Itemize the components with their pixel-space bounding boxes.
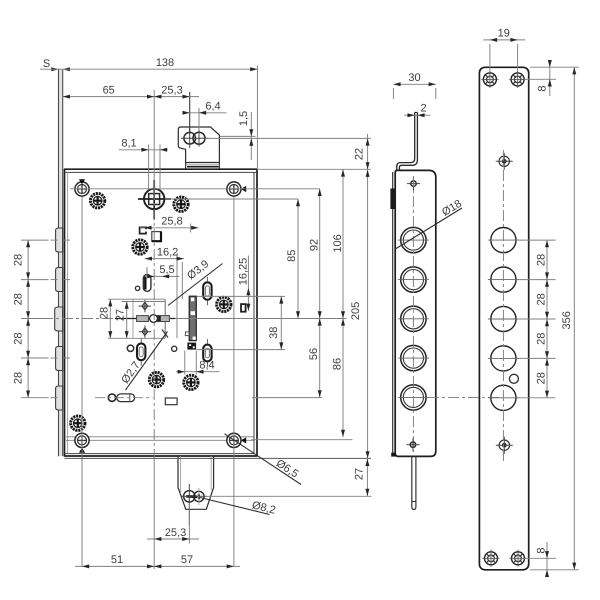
svg-text:205: 205 xyxy=(350,302,362,320)
spindle hub circle xyxy=(144,189,164,209)
lock case inner edge left xyxy=(67,172,69,453)
dimension 1,5 xyxy=(238,111,253,160)
mounting screw A top-left xyxy=(75,182,89,196)
dimension 5,5 xyxy=(147,264,179,278)
dimension 28 (gearbox) xyxy=(99,299,166,338)
leader diameter 2,7 xyxy=(119,330,168,391)
svg-text:28: 28 xyxy=(535,254,547,266)
extension of case top edge to dims 22/106 xyxy=(257,168,371,170)
side vertical centerline xyxy=(412,176,414,452)
bolt pin bump 2 xyxy=(56,268,63,292)
side screw hole marker bottom xyxy=(407,438,420,451)
axle mechanism bar left xyxy=(115,318,175,320)
side cylinder hole 5 xyxy=(398,385,429,410)
bolt pin bump 1 xyxy=(56,228,63,252)
faceplate fixing cross marker upper xyxy=(496,153,513,170)
bottom latch guide capsule xyxy=(117,394,135,402)
screw A top-right triangle marker xyxy=(241,186,246,192)
vertical centerline through hub and latch xyxy=(153,90,155,569)
svg-text:56: 56 xyxy=(308,348,320,360)
dimension 27 (bottom right) xyxy=(354,458,370,496)
svg-text:16,2: 16,2 xyxy=(157,246,178,258)
hatched screw B 4 xyxy=(217,297,231,311)
faceplate hole extension lines xyxy=(517,240,556,398)
hatched screw B 1 xyxy=(90,194,104,208)
slot capsule C3 xyxy=(203,339,211,367)
faceplate screw hole bottom right xyxy=(510,550,527,567)
keyhole dark slot bar xyxy=(186,495,197,498)
side faceplate edge line xyxy=(392,172,394,456)
bottom guide centerline xyxy=(95,397,153,399)
dimension 85 xyxy=(286,199,300,318)
extension at inner plate bottom for dim 86 xyxy=(252,439,353,441)
screw A top-left triangle marker xyxy=(79,179,85,184)
svg-text:S: S xyxy=(43,58,50,70)
axle mechanism bar right xyxy=(157,316,169,322)
svg-text:65: 65 xyxy=(103,84,115,96)
extension vertical from case right edge to 138 xyxy=(256,66,258,170)
dimension 138 xyxy=(40,57,257,71)
bolt pin bump 4 xyxy=(56,347,63,371)
lock case inner edge top xyxy=(65,171,258,173)
dimension 8,4 xyxy=(176,360,220,374)
extension tick for 5,5 xyxy=(146,267,148,277)
faceplate cylinder hole 2 xyxy=(488,267,519,292)
svg-text:8: 8 xyxy=(536,85,548,91)
latch bolt bar xyxy=(189,296,196,340)
small bracket part xyxy=(140,227,146,233)
dimension 8,1 xyxy=(119,138,168,152)
svg-text:8,1: 8,1 xyxy=(121,138,136,150)
dimension 38 xyxy=(268,296,284,349)
svg-text:28: 28 xyxy=(535,372,547,384)
svg-text:28: 28 xyxy=(99,307,111,319)
svg-text:106: 106 xyxy=(332,234,344,252)
extension lines of 1.5 offset xyxy=(220,135,256,137)
side screw hole marker top xyxy=(407,177,420,190)
svg-text:356: 356 xyxy=(561,311,573,329)
side body bottom-left plate end mark xyxy=(391,453,396,457)
svg-text:28: 28 xyxy=(535,293,547,305)
slot capsule C2 xyxy=(203,277,211,305)
horizontal latch axis centerline xyxy=(42,318,347,320)
svg-text:28: 28 xyxy=(535,333,547,345)
hatched screw B 2 xyxy=(174,197,188,211)
side cylinder hole 1 xyxy=(398,227,429,252)
hatched screw B 6 xyxy=(184,375,198,389)
hatched screw B 3 xyxy=(133,240,147,254)
keyhole crosshairs xyxy=(182,495,207,497)
extension verticals of 8.1 slot xyxy=(148,145,150,189)
faceplate outline xyxy=(479,67,528,570)
leader diameter 3,9 xyxy=(168,258,223,305)
svg-text:28: 28 xyxy=(12,254,24,266)
lock case outline xyxy=(65,169,258,456)
dimensions 51 and 57 xyxy=(75,554,240,568)
gearbox outline verticals xyxy=(132,299,134,338)
slot capsule C4 xyxy=(137,338,145,366)
svg-text:25,8: 25,8 xyxy=(161,216,182,228)
mounting screw A bottom-left xyxy=(75,433,89,447)
extension line from top screws (horizontal) xyxy=(70,188,320,190)
svg-text:138: 138 xyxy=(156,57,174,69)
keyhole horizontal centerline to dim 27 xyxy=(207,495,372,497)
svg-text:28: 28 xyxy=(12,372,24,384)
svg-text:51: 51 xyxy=(111,554,123,566)
hatched screw B 5 xyxy=(149,372,163,386)
connecting centerline to faceplate view xyxy=(428,396,502,398)
faceplate screw hole bottom left xyxy=(483,550,500,567)
side profile body xyxy=(395,170,436,456)
dimension 8 top xyxy=(524,60,579,96)
extension verticals below latch for 8,4 xyxy=(184,351,186,375)
faceplate fixing cross marker lower xyxy=(496,437,513,454)
faceplate cylinder hole 5 xyxy=(488,385,519,410)
side cylinder hole 3 xyxy=(398,306,429,331)
left pitch chain dimension line xyxy=(12,240,30,398)
extension of latch bolt bottom xyxy=(197,349,286,351)
extension vertical tab slot center up xyxy=(189,92,191,134)
dimension S (plate thickness) xyxy=(43,58,70,71)
extension tick for 25,8 xyxy=(190,224,192,233)
extension verticals for 16,2 and box xyxy=(176,253,178,338)
dimension 22 xyxy=(353,134,369,169)
faceplate edge-on (left view, thickness S) xyxy=(59,69,63,456)
dimension 56 xyxy=(308,318,322,397)
tab slot crosshairs xyxy=(181,137,209,139)
latch bolt lower block xyxy=(187,343,196,350)
svg-text:86: 86 xyxy=(331,358,343,370)
position cross marker lower xyxy=(139,326,151,338)
bottom plate keyhole right circle xyxy=(194,491,204,501)
svg-text:8,4: 8,4 xyxy=(199,360,214,372)
dimension 27 (gearbox) xyxy=(114,302,128,339)
extension vertical tab slot right hole up xyxy=(198,108,200,130)
slot capsule C1 (top left of center) xyxy=(143,269,151,292)
svg-text:25,3: 25,3 xyxy=(165,527,186,539)
svg-text:28: 28 xyxy=(12,332,24,344)
svg-text:27: 27 xyxy=(114,309,126,321)
svg-text:27: 27 xyxy=(354,468,366,480)
dimension 30 xyxy=(393,72,435,99)
dimension 16,2 xyxy=(145,246,184,260)
faceplate vertical centerline xyxy=(502,150,504,462)
mounting tab fold lines xyxy=(186,162,220,164)
svg-text:30: 30 xyxy=(408,72,420,84)
side cylinder hole 2 xyxy=(398,267,429,292)
small circle part 2 xyxy=(127,345,133,351)
internal plate bottom edge lines xyxy=(66,436,254,438)
mounting screw A top-right xyxy=(227,182,241,196)
bolt pin bump 5 xyxy=(56,386,63,410)
bottom latch guide circle xyxy=(108,394,115,401)
small square marker right xyxy=(241,304,246,312)
mounting screw A bottom-right xyxy=(227,433,241,447)
svg-text:25,3: 25,3 xyxy=(161,84,182,96)
side bolt pin (black) xyxy=(390,189,395,210)
dimension 6,4 xyxy=(183,101,227,115)
mounting tab (top) outline xyxy=(178,127,219,169)
svg-text:2: 2 xyxy=(420,103,426,115)
svg-text:28: 28 xyxy=(12,293,24,305)
dimension 19 xyxy=(483,28,525,72)
dimension 92 xyxy=(308,189,321,319)
bottom plate inner wall lines xyxy=(180,456,182,494)
extension line from hub center (horizontal, for dim 85) xyxy=(165,198,298,200)
svg-text:22: 22 xyxy=(353,148,365,160)
small circle part 3 xyxy=(172,346,177,351)
extension at lower hole level for dim 56 xyxy=(252,397,322,399)
bottom mounting plate outline xyxy=(178,456,214,509)
faceplate cylinder hole 1 xyxy=(488,228,519,253)
svg-text:16,25: 16,25 xyxy=(237,258,249,286)
lock case inner edge right xyxy=(253,172,255,453)
dimension 86 xyxy=(331,318,345,437)
dimension 25,3 bottom xyxy=(147,527,199,541)
faceplate small circle xyxy=(509,374,518,383)
faceplate cylinder hole 4 xyxy=(488,346,519,371)
dimension chain 28 x4 right xyxy=(535,240,549,398)
faceplate screw hole top left xyxy=(481,71,498,88)
small circle part 1 xyxy=(135,286,139,290)
bolt pin bump 3 xyxy=(55,307,63,331)
dimension 8 bottom xyxy=(524,542,579,577)
axle center pin circle xyxy=(150,315,158,323)
lock case inner edge bottom xyxy=(65,453,255,455)
svg-text:8: 8 xyxy=(536,547,548,553)
dimension 205 xyxy=(350,169,370,458)
svg-text:92: 92 xyxy=(308,239,320,251)
screw A bottom-right triangle marker xyxy=(241,437,246,443)
tab slot hole left circle xyxy=(184,132,196,144)
spindle hub square hole xyxy=(149,194,160,205)
bottom plate keyhole left circle xyxy=(184,491,195,502)
leader diameter 18 xyxy=(395,198,464,250)
extension of latch bolt top edge xyxy=(197,295,286,297)
small rectangle part below center xyxy=(165,398,177,405)
small white square left of latch xyxy=(185,332,189,336)
extension vertical from screws left column xyxy=(81,197,83,567)
svg-text:38: 38 xyxy=(268,327,280,339)
dimension 106 xyxy=(332,169,345,318)
tab slot hole right circle xyxy=(193,132,205,144)
dimension 2 (hook) xyxy=(404,103,431,118)
hole centerline ticks at left pitch chain xyxy=(21,240,70,398)
screw A bottom-left triangle marker xyxy=(79,448,85,453)
dimension 356 xyxy=(561,67,576,570)
extension of case bottom edge for dims 205/27 xyxy=(65,457,372,459)
spindle hub crosshairs xyxy=(138,198,171,200)
side profile strike hook xyxy=(397,112,418,170)
leader diameter 6,5 xyxy=(225,434,302,485)
dimension 25,8 xyxy=(140,216,198,230)
svg-text:85: 85 xyxy=(286,250,298,262)
dimension 65 and 25,3 top xyxy=(63,84,199,98)
svg-text:19: 19 xyxy=(498,28,510,40)
small square part on centerline xyxy=(152,232,161,242)
extension vertical from tab slot center down to bottom 25,3 xyxy=(188,503,190,544)
svg-text:5,5: 5,5 xyxy=(159,264,174,276)
side cylinder hole 4 xyxy=(398,345,429,370)
svg-text:1,5: 1,5 xyxy=(238,111,250,126)
extension vertical from screws right column xyxy=(233,197,235,567)
svg-text:6,4: 6,4 xyxy=(205,101,220,113)
hatched screw B 7 (bottom left) xyxy=(71,416,85,430)
leader diameter 8,2 xyxy=(200,498,277,517)
svg-text:57: 57 xyxy=(181,554,193,566)
faceplate cylinder hole 3 xyxy=(488,306,519,331)
faceplate screw hole top right xyxy=(509,71,526,88)
dimension 16,25 xyxy=(237,256,250,311)
side tailpiece pin xyxy=(412,456,416,509)
position cross marker upper xyxy=(139,300,151,312)
